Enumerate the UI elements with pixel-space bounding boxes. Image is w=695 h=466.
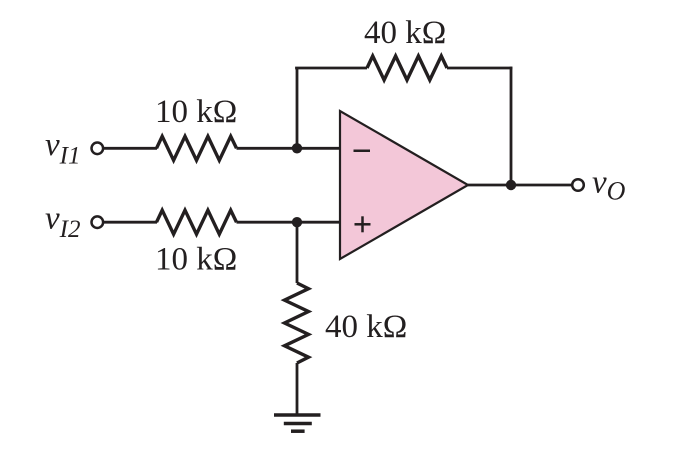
wire RG to ground: [296, 363, 299, 415]
ground: [274, 413, 321, 417]
op-amp minus sign: [354, 150, 371, 153]
wire node A up to feedback branch: [296, 68, 299, 148]
wire vI2 terminal to R2: [104, 221, 157, 224]
wire op-amp output to terminal vO: [468, 184, 572, 187]
wire node A to op-amp inverting input: [297, 147, 341, 150]
terminal vI1: [92, 143, 104, 155]
op-amp U1: [340, 111, 468, 259]
op-amp plus sign: [355, 223, 371, 226]
node B (noninverting input junction): [292, 217, 302, 227]
wire node B to op-amp noninverting input: [297, 221, 341, 224]
svg-text:40 kΩ: 40 kΩ: [325, 309, 407, 345]
wire R2 to node B: [237, 221, 298, 224]
svg-text:10 kΩ: 10 kΩ: [155, 242, 237, 278]
resistor R2 10 kOhm: [157, 210, 237, 234]
svg-text:40 kΩ: 40 kΩ: [364, 15, 446, 51]
wire node B down to RG: [296, 222, 299, 283]
wire feedback top right segment: [447, 67, 512, 70]
node C (output junction): [506, 180, 516, 190]
terminal vI2: [92, 216, 104, 228]
node A (inverting input junction): [292, 143, 302, 153]
resistor RG 40 kOhm to ground: [285, 283, 309, 363]
wire feedback right vertical to output node: [510, 67, 513, 185]
terminal vO: [572, 179, 584, 191]
wire vI1 terminal to R1: [104, 147, 157, 150]
wire feedback top left segment: [295, 67, 367, 70]
wire R1 to node A: [237, 147, 298, 150]
resistor RF 40 kOhm feedback: [367, 56, 447, 80]
svg-text:10 kΩ: 10 kΩ: [155, 94, 237, 130]
resistor R1 10 kOhm: [157, 136, 237, 160]
